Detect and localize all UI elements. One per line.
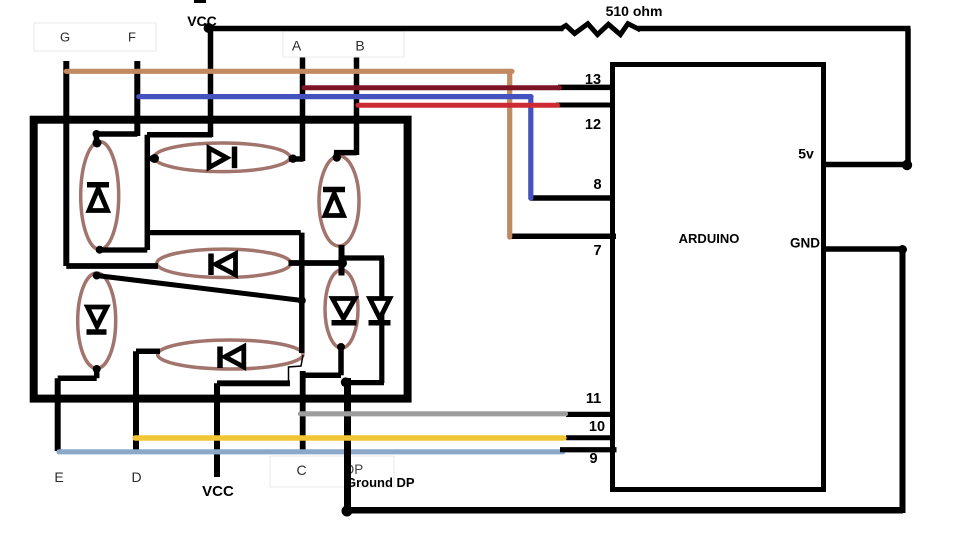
LED E ellipse bbox=[78, 273, 116, 368]
wire B stub to LED B top bbox=[334, 153, 340, 159]
LED G ellipse bbox=[157, 249, 291, 277]
wire rail stub to LED A bbox=[147, 156, 157, 162]
VCC stub off-screen top bbox=[194, 0, 206, 3]
7-segment display package box bbox=[34, 120, 408, 399]
wire B corner horizontal bbox=[334, 150, 357, 156]
wire red segment B to pin 12 bbox=[358, 103, 558, 108]
LED A ellipse bbox=[154, 143, 290, 172]
wire node B vertical bbox=[354, 58, 360, 156]
node junction dot B-C bbox=[337, 258, 347, 268]
node 5v junction dot bbox=[902, 160, 912, 170]
svg-text:GND: GND bbox=[790, 236, 820, 251]
wire E horizontal bbox=[58, 375, 97, 381]
svg-text:E: E bbox=[54, 469, 63, 485]
svg-text:11: 11 bbox=[586, 391, 601, 407]
wire corner down to 5v bbox=[905, 29, 911, 166]
wire 5v pin bbox=[823, 162, 907, 168]
svg-text:D: D bbox=[131, 469, 141, 485]
wire A stub to LED A right bbox=[289, 156, 304, 162]
wire VCC horizontal in box bbox=[147, 132, 212, 138]
wire rail bottom to LED F cathode bbox=[100, 247, 147, 252]
wire ground bottom horizontal bbox=[347, 507, 903, 514]
wire VCC bottom vertical bbox=[214, 383, 220, 477]
node ground-DP junction dot bbox=[342, 506, 353, 517]
wire node D vertical bbox=[133, 351, 139, 451]
wire node E vertical bbox=[55, 378, 61, 451]
node LED B top dot bbox=[333, 153, 341, 161]
wire DP vertical below box bbox=[344, 378, 351, 513]
node LED C bottom dot bbox=[337, 343, 345, 351]
svg-text:C: C bbox=[296, 462, 306, 478]
node LED A right dot bbox=[289, 155, 297, 163]
svg-text:5v: 5v bbox=[798, 146, 814, 162]
wire VCC rail vertical bbox=[145, 135, 151, 250]
svg-text:10: 10 bbox=[589, 419, 605, 435]
wire blue segment F to pin 8 horizontal bbox=[139, 94, 531, 99]
wire dark red segment A to pin 13 bbox=[304, 85, 560, 90]
wire DP column bottom horizontal bbox=[346, 380, 384, 385]
wire pin 11 bbox=[566, 412, 612, 417]
svg-text:VCC: VCC bbox=[202, 483, 234, 500]
wire junction to DP column bbox=[342, 255, 385, 260]
LED C ellipse bbox=[325, 270, 358, 348]
LED D ellipse bbox=[158, 340, 303, 369]
svg-text:7: 7 bbox=[593, 243, 601, 259]
wire yellow segment D to pin 10 bbox=[135, 435, 564, 440]
wire pin 9 over light blue bbox=[560, 447, 617, 452]
svg-text:Ground DP: Ground DP bbox=[346, 475, 415, 490]
wire F stub to LED F anode bbox=[94, 134, 100, 144]
wire blue vertical bbox=[528, 97, 533, 199]
node diagonal end dot bbox=[298, 297, 306, 305]
wire VCC bottom horizontal bbox=[217, 380, 290, 386]
svg-text:G: G bbox=[60, 30, 70, 45]
wire LED E bottom stub bbox=[94, 369, 100, 379]
node F corner dot bbox=[93, 130, 101, 138]
wire node F vertical bbox=[134, 61, 140, 136]
arduino U1 box bbox=[613, 65, 824, 490]
node LED F top dot bbox=[93, 139, 102, 148]
LED C diode symbol bbox=[332, 299, 357, 323]
svg-text:510 ohm: 510 ohm bbox=[606, 3, 663, 19]
wire center column vertical bbox=[299, 233, 305, 353]
svg-text:F: F bbox=[128, 30, 136, 45]
wire diagonal E-top to center column bbox=[97, 276, 302, 301]
wire thin connector LED D right bbox=[289, 355, 304, 383]
wire rail to center column bbox=[147, 230, 301, 235]
wire pin 7 bbox=[509, 233, 616, 239]
resistor 510 ohm bbox=[561, 24, 641, 35]
wire gray segment C to pin 11 bbox=[300, 411, 565, 416]
node LED F bottom dot bbox=[96, 246, 104, 254]
wire D stub to LED D bbox=[136, 349, 160, 355]
wire GND pin bbox=[826, 246, 903, 252]
wire brown vertical bbox=[507, 71, 512, 237]
wire light blue segment E to pin 9 bbox=[59, 449, 563, 454]
label box A B bbox=[283, 31, 404, 57]
node LED A left dot bbox=[150, 154, 159, 163]
wire pin 8 bbox=[530, 195, 612, 201]
wire VCC vertical into box bbox=[208, 28, 214, 137]
svg-text:A: A bbox=[292, 38, 302, 54]
wire node G vertical bbox=[63, 61, 69, 266]
wire LED G right to junction bbox=[289, 260, 346, 266]
wire DP column vertical bbox=[379, 258, 384, 383]
wire G horizontal to LED G bbox=[66, 263, 158, 269]
LED F diode symbol bbox=[87, 185, 109, 211]
LED B diode symbol bbox=[323, 190, 345, 216]
LED D diode symbol bbox=[220, 347, 244, 369]
wire F horizontal in box bbox=[94, 131, 137, 137]
wire VCC to resistor bbox=[208, 26, 564, 32]
LED A diode symbol bbox=[209, 147, 235, 169]
wire node C vertical bbox=[300, 371, 306, 451]
wire resistor to corner bbox=[638, 26, 911, 32]
wire pin 9 bbox=[560, 447, 617, 452]
node diagonal start dot bbox=[93, 272, 101, 280]
node DP junction dot bbox=[341, 377, 351, 387]
LED F ellipse bbox=[81, 142, 119, 250]
node LED E bottom dot bbox=[93, 365, 101, 373]
wire brown segment G to pin 7 horizontal bbox=[66, 69, 512, 74]
wire pin 10 bbox=[566, 435, 612, 440]
wire node A vertical bbox=[300, 58, 306, 162]
LED G diode symbol bbox=[211, 254, 236, 276]
wire GND down right side bbox=[900, 249, 906, 513]
label box C DP bbox=[270, 456, 394, 487]
wire LED C bottom stub bbox=[338, 346, 344, 375]
LED DP diode symbol bbox=[369, 299, 391, 323]
LED B ellipse bbox=[319, 156, 359, 246]
svg-text:9: 9 bbox=[589, 451, 597, 467]
LED E diode symbol bbox=[87, 307, 107, 332]
wire C horizontal bbox=[303, 373, 341, 379]
svg-text:B: B bbox=[355, 38, 364, 54]
svg-text:12: 12 bbox=[585, 117, 601, 133]
svg-text:8: 8 bbox=[593, 177, 601, 193]
label box G F bbox=[34, 23, 156, 51]
node VCC junction dot bbox=[204, 23, 214, 33]
wire pin 13 bbox=[558, 85, 612, 91]
wire pin 12 bbox=[556, 103, 614, 108]
svg-text:ARDUINO: ARDUINO bbox=[679, 231, 740, 246]
node GND corner dot bbox=[898, 245, 907, 254]
wire LED B bottom vertical bbox=[339, 245, 345, 276]
